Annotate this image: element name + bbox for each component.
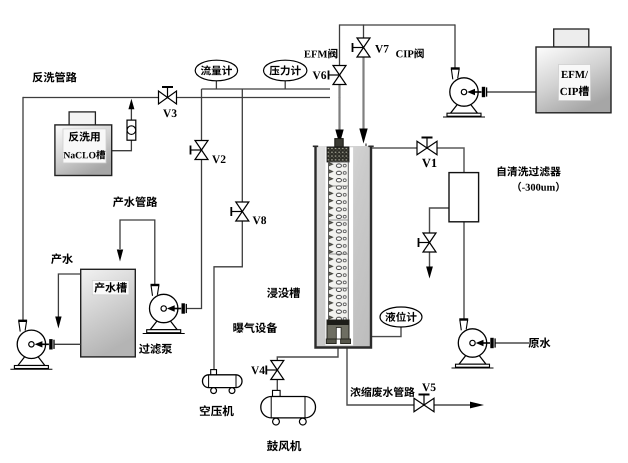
label NaCLO槽 (64, 150, 106, 159)
tank EFM/CIP槽 (554, 29, 589, 47)
label 产水 (51, 253, 73, 264)
label V7 (375, 45, 389, 53)
wire riser to EFM/CIP pump (454, 24, 456, 67)
wire pressure-gauge stem (284, 81, 286, 90)
label 产水管路 (113, 196, 157, 207)
label 浸没槽 (267, 288, 300, 299)
wire 产水 outlet line (58, 274, 80, 317)
valve V2 (195, 141, 208, 151)
node NaCLO arrow up into backwash line (128, 99, 134, 110)
instrument 流量计 (195, 60, 237, 81)
label 曝气设备 (233, 322, 277, 333)
wire flow-meter stem (215, 81, 217, 90)
wire waste line after V5 (434, 404, 471, 406)
pump 过滤泵 (150, 321, 177, 330)
label 反洗管路 (33, 72, 77, 83)
label CIP槽 (560, 86, 589, 96)
pump EFM/CIP (451, 104, 478, 113)
label V5 (422, 384, 436, 392)
wire V4 to blower (276, 380, 278, 391)
label V4 (251, 366, 265, 374)
valve filter bypass drain (423, 233, 436, 243)
label V1 (422, 159, 437, 168)
membrane module cap (327, 147, 349, 162)
wire raw water inlet (495, 342, 529, 344)
wire V8 branch drop (241, 89, 243, 202)
check valve on NaCLO line (127, 120, 136, 140)
node tank outlet stub (365, 144, 367, 149)
pump backwash (left) (18, 357, 45, 366)
membrane module body (329, 162, 349, 320)
instrument 液位计 (380, 307, 422, 327)
valve V7 (357, 38, 370, 48)
wire V6 trunk to EFM arrow (338, 98, 340, 132)
label V2 (212, 155, 225, 163)
valve V3 (159, 91, 168, 104)
wire backwash pump outlet to 产水槽 (55, 343, 81, 345)
filter 自清洗过滤器 vessel (449, 173, 479, 222)
label 过滤泵 (139, 343, 172, 354)
label 反洗用 (69, 131, 100, 141)
tank 产水槽 (81, 269, 136, 357)
wire V7 trunk to CIP arrow (362, 57, 364, 129)
membrane module top nub (335, 139, 343, 148)
wire V2 branch drop (187, 89, 202, 309)
wire product line pump top to tank (120, 220, 155, 286)
node bypass arrow down (426, 267, 433, 279)
valve V1 (417, 141, 427, 155)
label V3 (163, 109, 177, 117)
label (-300um) (518, 182, 559, 192)
wire level gauge link (372, 327, 401, 337)
pump raw water (459, 355, 486, 364)
label 压力计 (270, 65, 301, 75)
wire CIP top line y=25 (340, 24, 456, 26)
wire NaCLO tank outlet (112, 140, 132, 151)
node tank inner white channel (325, 147, 353, 345)
label 空压机 (200, 405, 234, 416)
tank 浸没槽 walls (316, 146, 372, 348)
wire V8 to air compressor (214, 222, 242, 370)
machine 鼓风机 blower (273, 390, 281, 396)
machine 空压机 air compressor (211, 370, 217, 375)
label 液位计 (385, 312, 416, 322)
node waste arrow right (470, 402, 484, 409)
node product-line arrow into 产水槽 (117, 250, 123, 262)
node 产水 arrow (55, 317, 61, 329)
wire backwash line (反洗管路) y=97.5 (23, 97, 330, 99)
wire manifold right junction x=339.5 (338, 85, 340, 99)
node CIP arrow into tank (359, 129, 367, 144)
label CIP阀 (396, 48, 424, 58)
valve V6 (333, 66, 346, 76)
wire tank outlet to V1 line y=148 (366, 148, 464, 173)
membrane module base (327, 320, 349, 339)
wire V7 trunk upper (363, 24, 365, 38)
wire V6 trunk upper (339, 24, 341, 65)
wire EFM/CIP pump to tank (487, 91, 536, 93)
wire top manifold line y=89 (202, 88, 331, 90)
label V6 (313, 71, 327, 79)
wire filter to raw pump (463, 222, 465, 319)
tank 反洗用NaCLO槽 (69, 112, 95, 126)
wire concentrate waste drop (347, 346, 414, 405)
wire aeration line tank to V4 (277, 346, 338, 361)
label 产水槽 (94, 282, 126, 293)
valve V4 (271, 361, 284, 371)
label 鼓风机 (267, 440, 301, 451)
node EFM arrow into module (335, 130, 343, 145)
label 流量计 (201, 65, 232, 75)
valve V5 (414, 398, 424, 412)
instrument 压力计 (264, 60, 307, 81)
label EFM/ (561, 71, 588, 78)
label EFM阀 (304, 49, 337, 59)
label 自清洗过滤器 (498, 166, 561, 176)
valve V8 (236, 202, 249, 212)
label 原水 (529, 338, 551, 349)
label 浓缩废水管路 (350, 387, 414, 397)
wire filter bypass (430, 208, 450, 267)
label V8 (253, 216, 267, 224)
wire NaCLO riser above check valve (130, 109, 132, 120)
wire left riser to backwash pump (22, 97, 24, 320)
